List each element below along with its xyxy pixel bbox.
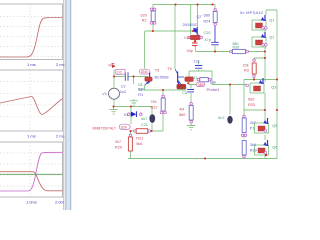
svg-text:P1: P1 [250, 127, 255, 131]
svg-text:560: 560 [179, 113, 185, 117]
svg-text:Q6: Q6 [272, 146, 277, 150]
svg-text:7k5: 7k5 [151, 100, 157, 104]
svg-text:Q5: Q5 [272, 124, 277, 128]
svg-text:2.0m: 2.0m [55, 200, 65, 205]
svg-text:R29: R29 [250, 149, 257, 153]
svg-text:R3: R3 [244, 69, 249, 73]
svg-text:C5: C5 [182, 91, 187, 95]
svg-text:2k7: 2k7 [250, 121, 256, 125]
svg-text:C2: C2 [121, 85, 126, 89]
svg-text:MMBT2907ALT: MMBT2907ALT [93, 127, 117, 131]
svg-text:Probe1: Probe1 [207, 87, 221, 92]
svg-text:R20: R20 [115, 146, 122, 150]
svg-text:C20: C20 [204, 31, 211, 35]
svg-text:4u7: 4u7 [141, 117, 147, 121]
svg-text:560: 560 [248, 98, 254, 102]
svg-text:620: 620 [141, 14, 147, 18]
svg-text:5x MPSA42: 5x MPSA42 [240, 10, 264, 15]
svg-text:47p: 47p [180, 86, 186, 90]
svg-text:X1: X1 [124, 113, 129, 117]
svg-text:C24: C24 [184, 36, 191, 40]
svg-text:R33: R33 [248, 103, 255, 107]
svg-text:GN3: GN3 [141, 70, 148, 74]
svg-text:DB0: DB0 [198, 83, 204, 87]
svg-text:D2b: D2b [121, 125, 127, 129]
svg-text:Rin: Rin [109, 64, 114, 68]
svg-text:2u2: 2u2 [120, 90, 126, 94]
svg-text:R1: R1 [138, 93, 143, 97]
svg-text:R21: R21 [136, 137, 143, 141]
svg-text:3k9: 3k9 [250, 143, 256, 147]
svg-text:C17: C17 [191, 76, 198, 80]
svg-text:R2: R2 [142, 19, 147, 23]
svg-text:C21: C21 [141, 123, 148, 127]
svg-text:Q7: Q7 [197, 15, 202, 19]
svg-text:Q2: Q2 [269, 36, 274, 40]
svg-text:C8: C8 [138, 83, 142, 87]
svg-text:V1: V1 [102, 92, 107, 96]
svg-text:R30: R30 [233, 45, 240, 49]
svg-text:T6: T6 [167, 67, 171, 71]
svg-text:2N3403C: 2N3403C [183, 23, 198, 27]
svg-text:2k7: 2k7 [115, 140, 121, 144]
svg-text:R24: R24 [204, 19, 211, 23]
svg-text:R22: R22 [151, 106, 158, 110]
svg-text:DC: DC [117, 70, 122, 74]
svg-text:BC550B: BC550B [155, 76, 170, 80]
svg-text:12k: 12k [194, 60, 200, 64]
svg-text:22k: 22k [243, 64, 249, 68]
svg-text:R6: R6 [138, 88, 142, 92]
svg-text:R4: R4 [180, 108, 185, 112]
svg-text:5k6: 5k6 [136, 142, 142, 146]
svg-text:6u7: 6u7 [218, 116, 224, 120]
svg-text:Q3: Q3 [271, 86, 276, 90]
svg-text:1 ms: 1 ms [27, 62, 36, 67]
svg-text:Q1: Q1 [269, 19, 274, 23]
svg-text:1 ms: 1 ms [27, 134, 36, 139]
svg-text:T5: T5 [155, 69, 159, 73]
svg-text:13k: 13k [210, 80, 216, 84]
svg-text:1.0ms: 1.0ms [26, 200, 37, 205]
svg-text:2 ms: 2 ms [56, 134, 65, 139]
svg-text:34p: 34p [187, 49, 193, 53]
svg-text:2 ms: 2 ms [56, 62, 65, 67]
svg-text:680: 680 [204, 13, 210, 17]
svg-text:47p: 47p [205, 38, 211, 42]
